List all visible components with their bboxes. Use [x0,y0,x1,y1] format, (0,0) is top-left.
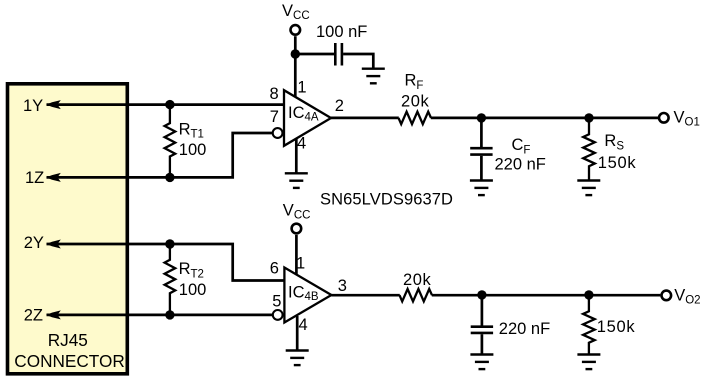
capacitor 100 nF [335,43,342,66]
inverting bubble pin 5 [273,310,283,320]
resistor 20k (bottom) [400,289,433,301]
junction dot 1Y/RT1 [165,100,174,109]
wire pin 4 to ground (IC4B) [296,316,299,351]
resistor RF 20k [399,112,432,124]
junction dot 220nF (bottom) [477,290,486,299]
terminal VO2 [662,291,672,301]
junction dot 2Y/RT2 [165,239,174,248]
svg-text:1Z: 1Z [25,169,44,187]
wire 1Y to pin 8 [47,103,285,106]
ground (IC4A) [285,173,308,188]
ground (CF) [470,181,493,196]
junction dot Vcc1 [291,49,300,58]
junction dot 2Z/RT2 [165,310,174,319]
svg-text:150k: 150k [598,154,637,172]
capacitor 220 nF (bottom) [471,295,493,355]
svg-text:1Y: 1Y [23,97,43,115]
svg-text:100: 100 [179,141,207,159]
junction dot 150k (bottom) [584,290,593,299]
svg-text:150k: 150k [597,318,636,336]
resistor 150k (bottom) [583,295,595,355]
arrow 2Y [46,240,61,249]
svg-text:220 nF: 220 nF [499,320,550,338]
arrow 1Z [46,173,61,182]
resistor RT2 [165,244,176,315]
wire Vcc to 100nF [295,53,334,56]
wire 2Y [47,244,285,281]
wire 2Z to pin 5 [47,314,273,317]
svg-text:220 nF: 220 nF [495,156,546,174]
svg-text:SN65LVDS9637D: SN65LVDS9637D [320,190,453,208]
resistor RT1 [165,105,176,178]
arrow 1Y [46,100,61,109]
inverting bubble pin 7 [273,128,283,138]
junction dot CF [477,113,486,122]
terminal VO1 [659,113,669,123]
svg-text:2Y: 2Y [24,234,44,252]
wire 20k to VO2 [432,294,661,297]
wire 100nF to ground [343,54,373,69]
svg-text:5: 5 [272,292,281,310]
wire RF to VO1 [431,117,658,120]
wire pin 2 to VO1 [331,117,399,120]
svg-text:8: 8 [270,85,279,103]
RJ45 connector box [8,84,128,374]
wire pin 3 to VO2 [331,294,399,297]
ground (150k bottom) [577,355,600,370]
svg-text:3: 3 [338,277,347,295]
svg-text:6: 6 [270,260,279,278]
capacitor CF 220 nF [470,118,492,181]
op-amp U2 IC4B triangle [284,268,331,323]
wire 1Z [47,133,273,177]
svg-text:CONNECTOR: CONNECTOR [14,351,124,371]
junction dot RS [584,113,593,122]
resistor RS 150k [583,118,595,181]
svg-text:100: 100 [179,281,207,299]
ground (100nF) [362,69,385,84]
op-amp U1 IC4A triangle [284,90,331,146]
svg-text:RJ45: RJ45 [48,330,88,350]
svg-text:1: 1 [297,79,306,97]
ground (220nF bottom) [470,355,493,370]
svg-text:4: 4 [297,135,306,153]
wire pin 4 to ground [295,139,298,173]
svg-text:100 nF: 100 nF [316,23,367,41]
svg-text:2Z: 2Z [24,306,43,324]
wire Vcc to pin 1 [294,36,297,97]
Vcc terminal 2 [292,224,302,234]
svg-text:20k: 20k [401,92,430,110]
arrow 2Z [46,310,61,319]
wire Vcc2 to pin 1 [295,235,298,275]
junction dot 1Z/RT1 [165,173,174,182]
svg-text:1: 1 [296,255,305,273]
svg-text:2: 2 [335,97,344,115]
svg-text:4: 4 [299,316,308,334]
svg-text:20k: 20k [403,271,432,289]
svg-text:7: 7 [270,108,279,126]
Vcc terminal 1 [291,25,301,35]
ground (RS) [577,181,600,196]
ground (IC4B) [286,351,309,366]
